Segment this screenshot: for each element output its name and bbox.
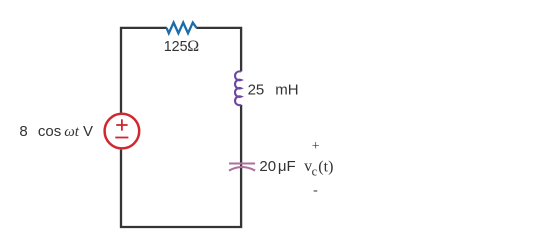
svg-text:(t): (t) <box>318 159 333 176</box>
svg-text:25: 25 <box>248 82 265 99</box>
svg-text:8: 8 <box>19 123 27 140</box>
svg-text:ωt: ωt <box>64 124 80 140</box>
svg-text:20: 20 <box>259 158 276 175</box>
svg-text:Ω: Ω <box>187 38 199 55</box>
svg-text:mH: mH <box>275 82 298 99</box>
svg-text:c: c <box>312 164 318 178</box>
svg-text:μF: μF <box>278 158 296 175</box>
svg-text:V: V <box>83 123 93 140</box>
svg-text:125: 125 <box>164 39 188 55</box>
svg-text:-: - <box>313 183 318 198</box>
svg-text:+: + <box>312 139 320 154</box>
svg-text:cos: cos <box>38 123 61 140</box>
